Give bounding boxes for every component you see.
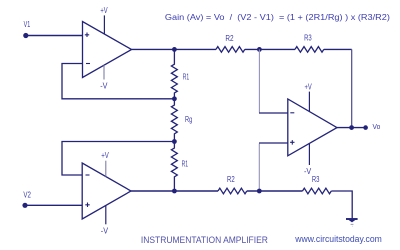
- wire U1 output: [132, 48, 217, 50]
- svg-text:R2: R2: [225, 33, 233, 43]
- node V2 input dot: [22, 203, 27, 208]
- U3 -V supply stub: [308, 143, 310, 165]
- svg-text:V2: V2: [23, 190, 31, 200]
- wire R3 top to corner: [324, 48, 352, 50]
- node V1 input dot: [23, 33, 28, 38]
- ground: [346, 219, 358, 226]
- op-amp U1 triangle: [83, 22, 132, 78]
- op-amp U3 minus input symbol: [290, 112, 294, 114]
- U1 +V supply stub: [103, 15, 105, 34]
- svg-text:R2: R2: [227, 174, 235, 184]
- wire U1 feedback to node A: [62, 64, 174, 99]
- svg-text:R1: R1: [183, 72, 190, 82]
- svg-text:Gain (Av) = Vo / (V2 - V1): Gain (Av) = Vo / (V2 - V1) = (1 + (2R1/R…: [165, 12, 390, 22]
- node B dot (Rg/R1 junction): [172, 139, 177, 144]
- wire to U3 non-inverting input: [259, 142, 288, 144]
- svg-text:+V: +V: [101, 150, 109, 160]
- svg-text:+V: +V: [305, 81, 312, 91]
- junction dot bottom (R2/R3/U3 non-inverting): [257, 189, 262, 194]
- resistor R2 (top): [216, 47, 245, 53]
- svg-text:R1: R1: [182, 158, 189, 168]
- junction dot U2 output / R1 bottom: [172, 189, 177, 194]
- node Vo terminal dot: [363, 125, 368, 130]
- op-amp U1 plus input symbol: [85, 33, 89, 38]
- wire R2 bottom to R3 bottom: [247, 190, 303, 192]
- op-amp U2 minus input symbol: [86, 174, 90, 176]
- svg-text:R3: R3: [312, 174, 320, 184]
- resistor R2 (bottom): [218, 188, 247, 194]
- U3 +V supply stub: [308, 92, 310, 112]
- node A dot (R1/Rg junction): [172, 96, 177, 101]
- wire U2 feedback to node B: [62, 142, 174, 176]
- resistor R3 (bottom): [303, 188, 332, 194]
- U1 -V supply stub: [103, 65, 105, 79]
- op-amp U1 minus input symbol: [86, 63, 90, 65]
- op-amp U2 triangle: [82, 163, 131, 219]
- junction dot top (R2/R3/U3 inverting): [257, 47, 262, 52]
- resistor R1 (bottom): [171, 142, 177, 192]
- wire feedback vertical down to output node: [351, 49, 353, 127]
- wire bottom junction up to U3 non-inverting input: [258, 144, 260, 191]
- wire to U3 inverting input: [259, 112, 288, 114]
- svg-text:R3: R3: [304, 33, 312, 43]
- svg-text:Vo: Vo: [373, 122, 381, 131]
- resistor R1 (top): [171, 49, 177, 98]
- svg-text:+V: +V: [100, 5, 107, 15]
- svg-text:www.circuitstoday.com: www.circuitstoday.com: [294, 234, 381, 244]
- svg-text:INSTRUMENTATION AMPLIFIER: INSTRUMENTATION AMPLIFIER: [141, 234, 268, 245]
- svg-text:-V: -V: [101, 226, 109, 236]
- resistor R3 (top): [295, 47, 324, 53]
- svg-text:V1: V1: [24, 19, 31, 29]
- wire V2 to U2 non-inverting input: [25, 204, 82, 206]
- resistor Rg: [171, 99, 177, 142]
- op-amp U2 plus input symbol: [85, 203, 89, 208]
- wire top junction down to U3 inverting input: [258, 49, 260, 112]
- wire U3 output to Vo: [337, 127, 366, 129]
- svg-text:-V: -V: [100, 80, 108, 90]
- svg-text:-V: -V: [304, 166, 312, 176]
- op-amp U3 plus input symbol: [290, 140, 294, 145]
- U2 -V supply stub: [105, 206, 107, 225]
- U2 +V supply stub: [105, 161, 107, 177]
- svg-text:Rg: Rg: [185, 114, 192, 124]
- wire R3 bottom to ground: [331, 191, 352, 218]
- junction dot U1 output / R1 top: [172, 47, 177, 52]
- op-amp U3 triangle: [288, 99, 337, 156]
- wire V1 to U1 non-inverting input: [26, 35, 83, 37]
- wire U2 output: [131, 190, 218, 192]
- junction dot output node: [349, 125, 354, 130]
- wire R2 top to R3 top: [245, 48, 295, 50]
